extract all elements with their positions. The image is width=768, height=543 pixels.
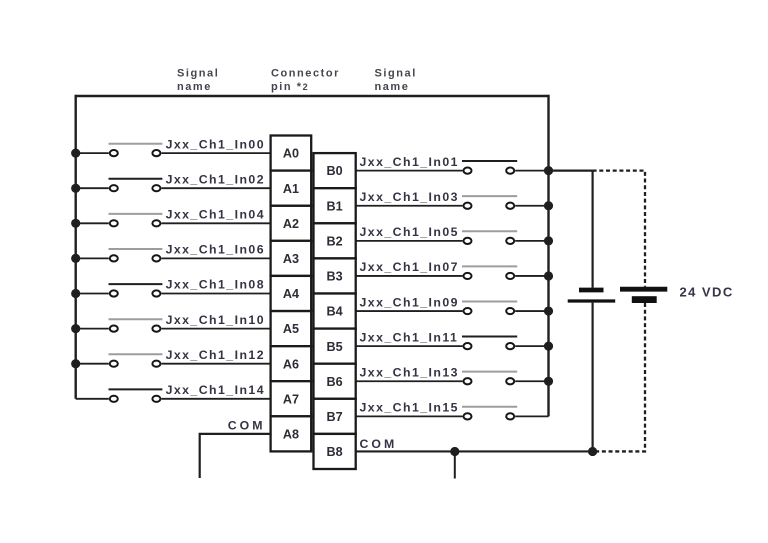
node left bus junction row In06 [71, 254, 80, 263]
connector pin A8 [271, 416, 312, 451]
switch S13 (In13) [462, 372, 517, 385]
connector pin A0 [271, 136, 312, 171]
connector pin B2 [314, 223, 356, 258]
wire pin B2 to switch In05 [355, 240, 463, 242]
wire dashed branch bottom [596, 303, 645, 451]
switch S11 (In11) [462, 337, 517, 350]
svg-text:B7: B7 [327, 410, 343, 424]
switch S03 (In03) [462, 196, 517, 209]
node right bus junction row In09 [544, 306, 553, 315]
node left bus junction row In12 [71, 359, 80, 368]
wire switch In05 to right bus [515, 240, 548, 242]
svg-text:A7: A7 [283, 392, 299, 406]
wire pin B5 to switch In11 [355, 345, 463, 347]
svg-text:B8: B8 [327, 445, 343, 459]
wire switch In15 to right bus [515, 415, 548, 417]
connector pin A4 [271, 276, 312, 311]
svg-text:Signal: Signal [177, 68, 219, 80]
svg-text:A1: A1 [283, 182, 299, 196]
connector pin B7 [314, 399, 356, 434]
switch S08 (In08) [109, 284, 163, 297]
connector pin B8 [314, 434, 356, 469]
switch S15 (In15) [462, 407, 517, 420]
svg-text:Jxx_Ch1_In15: Jxx_Ch1_In15 [360, 401, 459, 415]
wire battery G1 top lead [591, 171, 593, 288]
wire bus to switch In08 [76, 293, 109, 295]
svg-text:B0: B0 [327, 164, 343, 178]
switch S14 (In14) [109, 389, 163, 402]
wire switch In14 to pin A7 [161, 398, 271, 400]
wire bus to switch In02 [76, 187, 109, 189]
node right bus junction row In05 [544, 236, 553, 245]
svg-text:Jxx_Ch1_In02: Jxx_Ch1_In02 [166, 172, 265, 186]
svg-text:Jxx_Ch1_In12: Jxx_Ch1_In12 [166, 348, 265, 362]
switch S06 (In06) [109, 249, 163, 262]
wire switch In02 to pin A1 [161, 187, 271, 189]
connector pin A3 [271, 241, 312, 276]
wire switch In01 to right bus [515, 170, 548, 172]
svg-text:A6: A6 [283, 357, 299, 371]
node COM stub junction [450, 447, 459, 456]
wire bus to switch In14 [76, 398, 109, 400]
switch S05 (In05) [462, 231, 517, 244]
svg-text:COM: COM [228, 419, 266, 433]
switch S02 (In02) [109, 179, 163, 191]
svg-text:B4: B4 [327, 305, 343, 319]
wire switch In11 to right bus [515, 345, 548, 347]
wire battery G1 bottom lead [591, 303, 593, 452]
wire pin B7 to switch In15 [355, 415, 463, 417]
connector pin A7 [271, 381, 312, 416]
wire pin B6 to switch In13 [355, 380, 463, 382]
svg-text:Jxx_Ch1_In04: Jxx_Ch1_In04 [166, 208, 265, 222]
svg-text:Jxx_Ch1_In00: Jxx_Ch1_In00 [166, 137, 265, 151]
wire bus to switch In12 [76, 363, 109, 365]
switch S04 (In04) [109, 214, 163, 227]
wire switch In04 to pin A2 [161, 222, 271, 224]
switch S12 (In12) [109, 354, 163, 367]
switch S10 (In10) [109, 319, 163, 332]
svg-text:name: name [177, 81, 212, 93]
wire pin B8 COM rail [355, 450, 593, 452]
wire switch In03 to right bus [515, 205, 548, 207]
connector pin A1 [271, 171, 312, 206]
switch S01 (In01) [462, 161, 517, 174]
svg-text:B3: B3 [327, 270, 343, 284]
wire bus to switch In06 [76, 257, 109, 259]
node left bus junction row In04 [71, 219, 80, 228]
switch S00 (In00) [109, 144, 163, 157]
node right bus junction row In03 [544, 201, 553, 210]
svg-text:Connector: Connector [271, 68, 340, 80]
node right bus junction row In11 [544, 342, 553, 351]
wire COM stub down [454, 451, 456, 478]
wire pin B1 to switch In03 [355, 205, 463, 207]
svg-text:B6: B6 [327, 375, 343, 389]
wire left bus [74, 95, 76, 399]
svg-text:A5: A5 [283, 322, 299, 336]
connector pin B4 [314, 294, 356, 329]
wire switch In06 to pin A3 [161, 257, 271, 259]
wire switch In13 to right bus [515, 380, 548, 382]
svg-text:Jxx_Ch1_In08: Jxx_Ch1_In08 [166, 278, 265, 292]
svg-text:B5: B5 [327, 340, 343, 354]
svg-text:COM: COM [360, 437, 398, 451]
svg-text:A4: A4 [283, 287, 299, 301]
wire switch In00 to pin A0 [161, 152, 271, 154]
switch S09 (In09) [462, 301, 517, 314]
svg-text:Jxx_Ch1_In13: Jxx_Ch1_In13 [360, 365, 459, 379]
node right bus junction row In01 [544, 166, 553, 175]
connector pin B6 [314, 364, 356, 399]
svg-text:A0: A0 [283, 147, 299, 161]
wire bus to switch In10 [76, 328, 109, 330]
svg-text:B2: B2 [327, 234, 343, 248]
wire switch In07 to right bus [515, 275, 548, 277]
wire switch In08 to pin A4 [161, 293, 271, 295]
svg-text:Jxx_Ch1_In10: Jxx_Ch1_In10 [166, 313, 265, 327]
wire pin B0 to switch In01 [355, 170, 463, 172]
wire pin B3 to switch In07 [355, 275, 463, 277]
wire bus to switch In00 [76, 152, 109, 154]
svg-text:Jxx_Ch1_In07: Jxx_Ch1_In07 [360, 260, 459, 274]
node left bus junction row In10 [71, 324, 80, 333]
svg-text:Jxx_Ch1_In09: Jxx_Ch1_In09 [360, 295, 459, 309]
battery G2 (24 VDC alternative, dashed leads) [620, 289, 667, 303]
node right bus junction row In13 [544, 377, 553, 386]
node left bus junction row In00 [71, 149, 80, 158]
svg-text:B1: B1 [327, 199, 343, 213]
connector pin B0 [314, 153, 356, 188]
wire switch In12 to pin A6 [161, 363, 271, 365]
svg-text:Jxx_Ch1_In11: Jxx_Ch1_In11 [360, 330, 459, 344]
node left bus junction row In02 [71, 184, 80, 193]
wire switch In09 to right bus [515, 310, 548, 312]
connector pin A5 [271, 311, 312, 346]
svg-text:Jxx_Ch1_In03: Jxx_Ch1_In03 [360, 190, 459, 204]
node right bus junction row In07 [544, 271, 553, 280]
svg-text:Signal: Signal [375, 68, 417, 80]
wire right bus to battery branch [549, 170, 593, 172]
wire dashed branch top [593, 171, 645, 287]
svg-text:Jxx_Ch1_In14: Jxx_Ch1_In14 [166, 383, 265, 397]
connector pin B5 [314, 329, 356, 364]
svg-text:24 VDC: 24 VDC [680, 285, 734, 300]
wire right bus [547, 95, 549, 417]
wire pin B4 to switch In09 [355, 310, 463, 312]
wire top rail [76, 95, 549, 97]
svg-text:Jxx_Ch1_In06: Jxx_Ch1_In06 [166, 243, 265, 257]
connector pin A2 [271, 206, 312, 241]
svg-text:A3: A3 [283, 252, 299, 266]
svg-text:A8: A8 [283, 428, 299, 442]
svg-text:A2: A2 [283, 217, 299, 231]
switch S07 (In07) [462, 266, 517, 279]
connector pin B1 [314, 188, 356, 223]
node COM battery junction [588, 447, 597, 456]
svg-text:Jxx_Ch1_In05: Jxx_Ch1_In05 [360, 225, 459, 239]
connector pin B3 [314, 258, 356, 293]
connector pin A6 [271, 346, 312, 381]
svg-text:pin *2: pin *2 [271, 81, 309, 93]
battery G1 (24 VDC) [568, 290, 616, 301]
svg-text:Jxx_Ch1_In01: Jxx_Ch1_In01 [360, 155, 459, 169]
wire bus to switch In04 [76, 222, 109, 224]
node left bus junction row In08 [71, 289, 80, 298]
wire COM to pin A8 [200, 434, 272, 478]
svg-text:name: name [375, 81, 410, 93]
wire switch In10 to pin A5 [161, 328, 271, 330]
